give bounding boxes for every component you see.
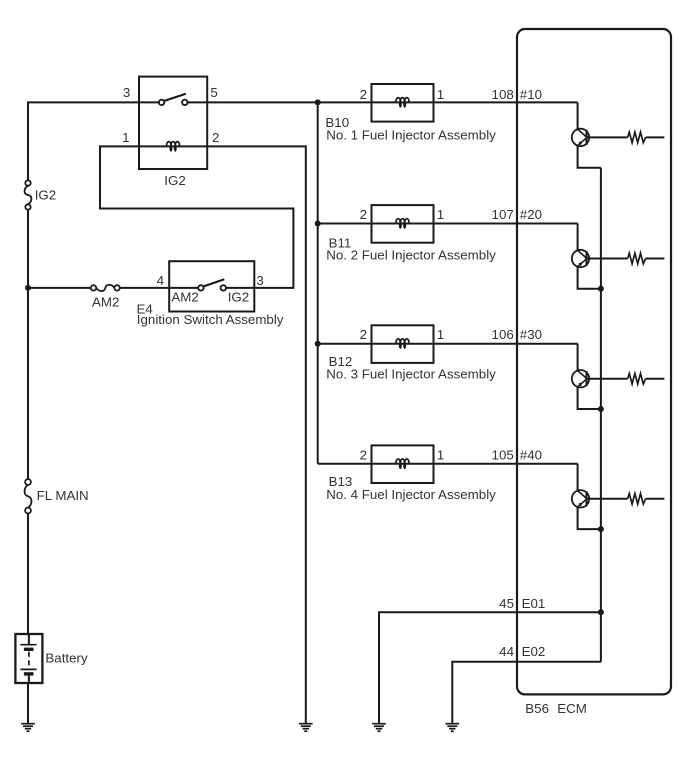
svg-text:44: 44 [499, 644, 514, 659]
svg-text:E02: E02 [522, 644, 546, 659]
svg-text:2: 2 [212, 130, 219, 145]
svg-text:IG2: IG2 [228, 290, 249, 305]
ECM connector B56 outline [517, 29, 671, 694]
wire relay pin5 to injector bus [207, 101, 318, 103]
svg-text:3: 3 [123, 85, 130, 100]
wire E01 to ground [379, 612, 601, 723]
wire injector row B12 [318, 343, 578, 345]
svg-text:1: 1 [437, 327, 444, 342]
wire fuse to battery [27, 513, 29, 634]
coil injector B12 [396, 339, 409, 349]
svg-text:107: 107 [492, 207, 514, 222]
wire relay pin2 to ground [207, 146, 306, 723]
relay IG2 outline [139, 77, 207, 169]
ground E01 [372, 724, 386, 732]
wire switch internal [169, 287, 198, 289]
wire injector row B10 [318, 101, 578, 103]
injector B13 outline [372, 445, 434, 483]
resistor (pull-up inside ECM) [628, 132, 646, 143]
wire resistor lead [646, 136, 665, 138]
svg-text:ECM: ECM [557, 701, 587, 716]
injector B12 outline [372, 325, 434, 363]
svg-text:E01: E01 [522, 596, 546, 611]
wire emitter lead [578, 267, 601, 289]
fuse FL MAIN [25, 479, 32, 513]
svg-text:B56: B56 [525, 701, 549, 716]
wire collector lead [577, 344, 579, 371]
svg-text:#10: #10 [520, 87, 542, 102]
ground battery [21, 724, 35, 732]
transistor (injector driver) [572, 490, 589, 507]
node E01 junction [598, 609, 604, 615]
node emitter row3 [598, 406, 604, 412]
svg-text:AM2: AM2 [171, 290, 198, 305]
node junction AM2 branch [25, 285, 31, 291]
wire collector lead [577, 224, 579, 251]
svg-text:IG2: IG2 [35, 187, 56, 202]
wire injector row B13 [318, 463, 578, 465]
switch contact E4 [198, 279, 226, 290]
fuse AM2 [91, 285, 120, 291]
wire resistor lead [646, 498, 665, 500]
svg-text:2: 2 [360, 447, 367, 462]
fuse IG2 [25, 180, 32, 209]
battery [15, 634, 42, 683]
wire base lead [587, 258, 628, 260]
svg-text:1: 1 [437, 87, 444, 102]
transistor (injector driver) [572, 370, 589, 387]
svg-text:1: 1 [437, 207, 444, 222]
ground relay coil [299, 724, 313, 732]
injector B11 outline [372, 205, 434, 243]
wire emitter lead [578, 146, 601, 168]
svg-text:106: 106 [492, 327, 514, 342]
node pin5 bus junction [315, 99, 321, 105]
svg-text:5: 5 [210, 85, 217, 100]
svg-text:4: 4 [157, 273, 165, 288]
wire collector lead [577, 464, 579, 491]
svg-text:FL MAIN: FL MAIN [37, 488, 89, 503]
node bus row2 [315, 221, 321, 227]
svg-text:No. 2 Fuel Injector Assembly: No. 2 Fuel Injector Assembly [326, 248, 496, 263]
wire emitter lead [578, 387, 601, 409]
svg-text:#40: #40 [520, 447, 542, 462]
coil injector B10 [396, 98, 409, 108]
wire ECM ground bus [600, 168, 602, 662]
svg-text:No. 1 Fuel Injector Assembly: No. 1 Fuel Injector Assembly [326, 127, 496, 142]
svg-text:1: 1 [437, 447, 444, 462]
wire emitter lead [578, 507, 601, 529]
wire relay coil (pins 1-2) [139, 145, 207, 147]
svg-text:2: 2 [360, 327, 367, 342]
svg-text:45: 45 [499, 596, 514, 611]
wire base lead [587, 498, 628, 500]
wire collector lead [577, 102, 579, 129]
wire base lead [587, 136, 628, 138]
wire resistor lead [646, 378, 665, 380]
svg-text:#30: #30 [520, 327, 542, 342]
resistor (pull-up inside ECM) [628, 494, 646, 505]
svg-text:No. 4 Fuel Injector Assembly: No. 4 Fuel Injector Assembly [326, 487, 496, 502]
transistor (injector driver) [572, 129, 589, 146]
svg-text:Ignition Switch Assembly: Ignition Switch Assembly [137, 312, 284, 327]
wire fuse to switch pin4 [120, 287, 169, 289]
switch contact relay [159, 94, 188, 105]
svg-text:108: 108 [492, 87, 514, 102]
svg-text:#20: #20 [520, 207, 542, 222]
wire relay contact (pins 3-5) [139, 101, 159, 103]
ground E02 [446, 724, 460, 732]
node emitter row4 [598, 526, 604, 532]
wire E02 to ground [452, 662, 601, 724]
wire injector row B11 [318, 223, 578, 225]
svg-text:105: 105 [492, 447, 514, 462]
svg-text:AM2: AM2 [92, 294, 119, 309]
node bus row3 [315, 341, 321, 347]
svg-text:1: 1 [122, 130, 129, 145]
transistor (injector driver) [572, 250, 589, 267]
injector B10 outline [372, 84, 434, 122]
svg-text:3: 3 [256, 273, 263, 288]
wire resistor lead [646, 258, 665, 260]
resistor (pull-up inside ECM) [628, 373, 646, 384]
coil injector B13 [396, 459, 409, 469]
coil injector B11 [396, 219, 409, 229]
wire left column mid [27, 210, 29, 480]
svg-text:2: 2 [360, 87, 367, 102]
wire injector supply bus [317, 102, 319, 463]
coil relay IG2 [167, 142, 180, 152]
svg-text:Battery: Battery [45, 650, 88, 665]
svg-text:2: 2 [360, 207, 367, 222]
node emitter row2 [598, 286, 604, 292]
wire battery to ground [27, 683, 29, 723]
ignition switch E4 outline [169, 261, 254, 311]
wire base lead [587, 378, 628, 380]
svg-text:IG2: IG2 [164, 173, 185, 188]
svg-text:No. 3 Fuel Injector Assembly: No. 3 Fuel Injector Assembly [326, 366, 496, 381]
resistor (pull-up inside ECM) [628, 253, 646, 264]
wire AM2 feed [28, 287, 91, 289]
wire relay pin1 to switch pin3 [100, 146, 293, 288]
wire battery feed (left column top) [28, 102, 139, 180]
